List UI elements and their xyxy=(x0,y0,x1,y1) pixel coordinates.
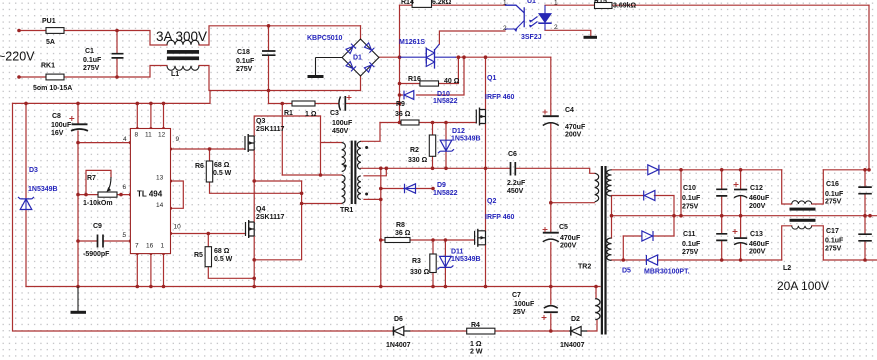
junction 865,215.7 xyxy=(863,214,867,218)
capacitor C3 electrolytic xyxy=(339,97,341,111)
wire AC line bottom from input via RK1 xyxy=(19,66,361,91)
svg-text:200V: 200V xyxy=(749,249,766,256)
svg-text:~220V: ~220V xyxy=(0,50,35,64)
junction 137.3,253.6 xyxy=(136,252,139,255)
bridge rectifier D1 outline xyxy=(342,39,379,76)
svg-text:RK1: RK1 xyxy=(41,63,55,70)
capacitor C6 xyxy=(511,162,516,176)
svg-text:12: 12 xyxy=(158,132,166,139)
resistor R5 xyxy=(205,247,211,267)
transformer TR1 windings xyxy=(342,143,346,172)
wire output minus rail y260 xyxy=(612,259,877,261)
svg-text:C8: C8 xyxy=(52,113,61,120)
svg-text:0.5 W: 0.5 W xyxy=(214,256,233,263)
svg-text:5A: 5A xyxy=(46,39,55,46)
svg-text:36 Ω: 36 Ω xyxy=(395,111,411,118)
junction 550.8,286.5 xyxy=(549,285,553,289)
wire ground rail y286.5 xyxy=(26,286,600,288)
svg-text:C11: C11 xyxy=(683,231,696,238)
svg-text:R8: R8 xyxy=(396,222,405,229)
wire TR1 top-left terminal xyxy=(321,142,342,144)
wire vertical x399.5 startup column xyxy=(399,5,401,122)
svg-text:275V: 275V xyxy=(682,249,699,256)
black component layer xyxy=(46,0,612,334)
svg-text:2.2uF: 2.2uF xyxy=(507,180,526,187)
svg-text:330 Ω: 330 Ω xyxy=(410,269,430,276)
svg-text:450V: 450V xyxy=(332,128,349,135)
junction 721.7,260 xyxy=(720,258,724,262)
svg-text:275V: 275V xyxy=(682,204,699,211)
zener D12 1N5349B xyxy=(438,140,454,153)
junction 163.5,128.5 xyxy=(162,127,165,130)
svg-text:TR2: TR2 xyxy=(578,264,591,271)
junction 869,169.8 xyxy=(867,168,871,172)
junction 163.5,103.4 xyxy=(162,102,166,106)
svg-text:R14: R14 xyxy=(401,0,414,6)
wire L2 bottom risers xyxy=(782,226,824,260)
wire TL494 pin13 pin14 loop xyxy=(171,181,184,208)
svg-text:8: 8 xyxy=(135,132,139,139)
junction 170.5,208.3 xyxy=(169,207,172,210)
svg-text:68 Ω: 68 Ω xyxy=(214,162,230,169)
junction 721.7,169.8 xyxy=(720,168,724,172)
junction 399.5,83.5 xyxy=(398,82,402,86)
wire D5c row y236 xyxy=(623,235,674,237)
wire Q2 drain xyxy=(485,168,487,231)
svg-text:-5900pF: -5900pF xyxy=(83,251,110,258)
svg-text:0.1uF: 0.1uF xyxy=(682,241,701,248)
svg-text:100uF: 100uF xyxy=(51,122,72,129)
resistor R6 xyxy=(206,161,212,182)
junction 19,30.5 xyxy=(17,29,21,33)
resistor R16 xyxy=(420,81,439,86)
junction 366.6,147.5 xyxy=(365,146,368,149)
wire R8 gate row y240 xyxy=(381,239,475,241)
junction 170.5,149 xyxy=(169,147,172,150)
wire R7 wiper loop xyxy=(86,170,111,194)
optocoupler light arrows xyxy=(530,17,538,28)
svg-text:C5: C5 xyxy=(559,224,568,231)
capacitor C10 xyxy=(716,189,727,196)
svg-text:450V: 450V xyxy=(507,188,524,195)
resistor R15 3.69k xyxy=(595,3,613,9)
junction 78,103.4 xyxy=(76,102,80,106)
svg-text:C6: C6 xyxy=(508,151,517,158)
resistor R1 xyxy=(292,101,315,106)
ground at bridge minus xyxy=(316,58,343,76)
svg-text:16: 16 xyxy=(146,243,154,250)
svg-text:R15: R15 xyxy=(594,0,607,5)
junction 380.8,240 xyxy=(379,238,383,242)
wire TR2 primary bottom return xyxy=(551,202,595,204)
svg-text:36 Ω: 36 Ω xyxy=(395,230,411,237)
svg-text:U1: U1 xyxy=(527,0,536,5)
plus polarity marks xyxy=(69,95,738,320)
transistor Q4 2SK1117 xyxy=(245,222,247,236)
wire pin10 row to Q4 gate xyxy=(171,233,246,235)
svg-text:1N5822: 1N5822 xyxy=(433,98,458,105)
wire TL494 pin 6 with R7 xyxy=(78,194,130,196)
wire output plus rail y169.8 xyxy=(612,169,870,171)
junction 464,57.2 xyxy=(462,55,466,59)
junction 446,168.3 xyxy=(444,167,448,171)
svg-text:13: 13 xyxy=(156,175,164,182)
svg-text:3A 300V: 3A 300V xyxy=(156,29,207,44)
svg-text:1-10kOm: 1-10kOm xyxy=(83,200,113,207)
wire C4 C5 column x550.8 xyxy=(550,57,552,286)
wire LED anode row to R15 xyxy=(545,4,869,6)
junction 320.5,175 xyxy=(319,173,323,177)
junction 301.6,203.5 xyxy=(300,202,304,206)
wire C7 column xyxy=(550,287,552,332)
svg-text:2SK1117: 2SK1117 xyxy=(256,126,285,133)
svg-text:IRFP 460: IRFP 460 xyxy=(485,94,515,101)
wire secondary lower tap to D5b xyxy=(612,196,675,237)
capacitor C7 electrolytic xyxy=(544,306,558,309)
svg-text:D9: D9 xyxy=(437,182,446,189)
choke L1 xyxy=(167,40,199,45)
junction 681,215.7 xyxy=(679,214,683,218)
junction 130.4,194.6 xyxy=(129,193,132,196)
junction 623.3,260 xyxy=(622,258,626,262)
svg-text:100uF: 100uF xyxy=(514,301,535,308)
svg-text:D2: D2 xyxy=(571,316,580,323)
junction 78,241 xyxy=(76,239,80,243)
wire R3 column xyxy=(432,240,434,287)
svg-text:6.2kΩ: 6.2kΩ xyxy=(432,0,452,6)
junction 19,77 xyxy=(17,75,21,79)
junction 380.8,168.3 xyxy=(379,167,383,171)
svg-text:100uF: 100uF xyxy=(332,120,353,127)
wire C11 C13 columns lower xyxy=(722,216,741,260)
thyristor M1261S xyxy=(400,56,457,58)
svg-text:R4: R4 xyxy=(471,322,480,329)
wire LED cathode row to ground xyxy=(545,30,591,36)
svg-text:14: 14 xyxy=(156,202,164,209)
svg-text:200V: 200V xyxy=(749,203,766,210)
svg-text:1N5349B: 1N5349B xyxy=(451,256,481,263)
wire TL494 pin 7 16 1 bottom pins xyxy=(137,254,163,287)
junction 254.2,181 xyxy=(252,179,256,183)
svg-text:R2: R2 xyxy=(410,147,419,154)
svg-text:40 Ω: 40 Ω xyxy=(444,78,460,85)
wire TR2 secondary stubs xyxy=(611,196,613,238)
junction 78,142.6 xyxy=(76,141,80,145)
junction 117,77 xyxy=(115,75,119,79)
junction 254.2,278.3 xyxy=(252,277,256,281)
capacitor C16 xyxy=(858,187,872,194)
capacitor C11 xyxy=(716,234,727,241)
svg-text:TR1: TR1 xyxy=(340,207,353,214)
wire C17 column xyxy=(864,216,866,260)
wire TR1 mid-left terminal row y175 xyxy=(282,174,341,176)
junction 740.6,169.8 xyxy=(739,168,743,172)
svg-text:C9: C9 xyxy=(93,223,102,230)
svg-text:2 W: 2 W xyxy=(470,349,483,356)
svg-text:1N5349B: 1N5349B xyxy=(28,186,58,193)
junction 150.9,286.5 xyxy=(149,285,153,289)
svg-text:1: 1 xyxy=(554,0,558,7)
svg-text:1N5349B: 1N5349B xyxy=(451,136,481,143)
junction 740.6,215.7 xyxy=(739,214,743,218)
wire TR1 right-top winding riser to gate row xyxy=(361,123,380,142)
svg-text:4: 4 xyxy=(123,136,127,143)
svg-text:0.1uF: 0.1uF xyxy=(825,238,844,245)
svg-text:R9: R9 xyxy=(396,101,405,108)
svg-text:C4: C4 xyxy=(565,107,574,114)
svg-text:C12: C12 xyxy=(750,185,763,192)
svg-text:Q3: Q3 xyxy=(256,118,265,125)
junction 445.4,240 xyxy=(444,238,448,242)
transistor Q3 2SK1117 xyxy=(244,136,246,150)
wire C1 column xyxy=(116,31,118,78)
svg-text:C18: C18 xyxy=(237,49,250,56)
wire R5 column xyxy=(208,234,254,279)
svg-text:L1: L1 xyxy=(171,71,179,78)
transformer TR2 windings xyxy=(595,173,599,201)
junction 86,194.6 xyxy=(84,193,88,197)
capacitor C4 electrolytic xyxy=(543,115,559,117)
svg-text:9: 9 xyxy=(176,136,180,143)
svg-text:M1261S: M1261S xyxy=(399,39,425,46)
wire feedback column x869 xyxy=(868,5,870,170)
svg-text:20A 100V: 20A 100V xyxy=(777,279,829,293)
resistor R4 xyxy=(467,328,495,334)
svg-text:C16: C16 xyxy=(826,181,839,188)
junction 301.6,193.3 xyxy=(300,192,304,196)
wire control supply rail y101.7 xyxy=(13,91,211,104)
svg-text:D6: D6 xyxy=(394,316,403,323)
svg-text:1 Ω: 1 Ω xyxy=(470,341,482,348)
resistor R9 xyxy=(401,120,419,125)
junction 485.5,57.2 xyxy=(484,55,488,59)
wire x320.5 column xyxy=(320,116,322,175)
svg-text:C10: C10 xyxy=(683,185,696,192)
junction 865,260 xyxy=(863,258,867,262)
junction 740.6,260 xyxy=(739,258,743,262)
svg-text:275V: 275V xyxy=(825,199,842,206)
svg-text:275V: 275V xyxy=(825,246,842,253)
wire opto supply row y5.2 xyxy=(400,4,506,6)
wire D10 branch xyxy=(400,57,465,95)
wire C10 C12 columns upper xyxy=(722,170,741,216)
junction 399.5,57.2 xyxy=(398,55,402,59)
svg-text:2: 2 xyxy=(554,24,558,31)
svg-text:MBR30100PT.: MBR30100PT. xyxy=(644,269,690,276)
junction 268.5,90.5 xyxy=(267,89,271,93)
bridge diode bottom-right xyxy=(364,62,374,72)
junction 150.9,103.4 xyxy=(149,102,153,106)
junction 445.4,286.5 xyxy=(444,285,448,289)
resistor R3 xyxy=(430,254,436,273)
transistor Q1 IRFP460 xyxy=(475,110,477,124)
wire gate drive row y122.5 xyxy=(380,122,476,124)
ground at TL494 xyxy=(77,287,79,312)
junction 433,188.5 xyxy=(431,187,435,191)
wire x681 column xyxy=(680,170,682,216)
junction 121,194.6 xyxy=(119,193,123,197)
junction 282.3,103.5 xyxy=(281,102,285,106)
capacitor C18 xyxy=(262,51,276,55)
svg-text:R3: R3 xyxy=(412,258,421,265)
svg-text:D1: D1 xyxy=(353,55,362,62)
wire D12 column xyxy=(445,123,447,169)
wire TR2 aux winding to ground rail xyxy=(595,287,597,299)
svg-text:L2: L2 xyxy=(783,265,791,272)
svg-text:0.1uF: 0.1uF xyxy=(825,191,844,198)
svg-text:1 Ω: 1 Ω xyxy=(305,111,317,118)
wire R2 column xyxy=(432,123,434,169)
junction 170.5,233.5 xyxy=(169,232,172,235)
svg-text:R16: R16 xyxy=(408,76,421,83)
svg-text:0.1uF: 0.1uF xyxy=(236,58,255,65)
junction 399.5,122.5 xyxy=(398,121,402,125)
junction 163.5,253.6 xyxy=(162,252,165,255)
junction 150.9,128.5 xyxy=(149,127,152,130)
wire output mid rail y215.7 xyxy=(612,215,877,217)
junction 721.7,215.7 xyxy=(720,214,724,218)
svg-text:6: 6 xyxy=(123,184,127,191)
svg-text:68 Ω: 68 Ω xyxy=(214,248,230,255)
svg-text:2: 2 xyxy=(503,25,507,32)
junction 170.5,181 xyxy=(169,179,172,182)
wire AC line top from input to fuse PU1 and on xyxy=(19,26,361,45)
wire mid row y168.3 half-bridge midpoint to C6 and TR2 xyxy=(361,168,595,173)
junction 380.8,199.4 xyxy=(379,198,383,202)
capacitor C1 xyxy=(112,54,124,58)
zener D3 1N5349B xyxy=(18,197,34,210)
svg-text:470uF: 470uF xyxy=(560,235,581,242)
capacitor C9 xyxy=(98,235,104,248)
blue symbol layer xyxy=(18,5,659,269)
svg-text:D12: D12 xyxy=(452,128,465,135)
rectifier diode D5b xyxy=(644,191,655,201)
junction 433,286.5 xyxy=(431,285,435,289)
fuse RK1 xyxy=(46,74,64,80)
junction 208.3,233.5 xyxy=(207,232,211,236)
wire x78 column C8 R7 C9 ground xyxy=(77,103,79,286)
junction 458.4,57.2 xyxy=(457,55,461,59)
junction 865,169.8 xyxy=(863,168,867,172)
svg-text:C3: C3 xyxy=(330,110,339,117)
resistor R8 xyxy=(385,238,410,243)
wire x301.6 column xyxy=(254,181,301,260)
svg-text:460uF: 460uF xyxy=(749,241,770,248)
wire C18 column and R1 feed xyxy=(268,26,270,104)
wire TR1 right-bottom winding bottom tap xyxy=(364,198,381,200)
junction 432.5,168.3 xyxy=(431,167,435,171)
svg-text:11: 11 xyxy=(145,132,152,139)
svg-text:C13: C13 xyxy=(750,231,763,238)
junction 681,169.8 xyxy=(679,168,683,172)
capacitor C5 electrolytic xyxy=(543,232,559,234)
wire TL494 pin 8 11 12 top pins xyxy=(137,103,163,128)
svg-text:3SF2J: 3SF2J xyxy=(521,34,542,41)
svg-text:330 Ω: 330 Ω xyxy=(408,157,428,164)
junction 137.3,103.4 xyxy=(136,102,140,106)
svg-text:7: 7 xyxy=(135,243,139,250)
junction 137.3,286.5 xyxy=(136,285,140,289)
svg-text:0.5 W: 0.5 W xyxy=(213,170,232,177)
diode D6 1N4007 xyxy=(392,330,410,332)
junction 130.4,142.6 xyxy=(129,141,132,144)
bridge diode top-right xyxy=(364,43,374,53)
rectifier diode D5c xyxy=(642,231,653,241)
wire Q4 source to ground rail xyxy=(253,237,255,287)
wire bridge bottom corner drop xyxy=(360,76,362,91)
junction 432.5,122.5 xyxy=(431,121,435,125)
junction 485.5,168.3 xyxy=(484,167,488,171)
junction 78,286.5 xyxy=(76,285,80,289)
svg-text:200V: 200V xyxy=(560,243,577,250)
resistor R2 xyxy=(429,135,435,156)
rectifier diode D5a xyxy=(648,165,659,175)
svg-text:3.69kΩ: 3.69kΩ xyxy=(613,3,637,10)
junction 137.3,128.5 xyxy=(136,127,139,130)
capacitor C13 electrolytic xyxy=(734,237,747,239)
svg-text:5om 10-15A: 5om 10-15A xyxy=(33,85,72,92)
junction 78,194.6 xyxy=(76,193,80,197)
IC TL494 box xyxy=(130,129,170,254)
capacitor C17 xyxy=(858,234,872,241)
svg-text:Q1: Q1 xyxy=(487,75,496,82)
optocoupler U1 phototransistor xyxy=(505,5,524,27)
wire x380.8 column to ground rail xyxy=(380,168,382,286)
diode D9 1N5822 xyxy=(405,184,416,193)
zener D11 1N5349B xyxy=(437,256,453,269)
svg-text:Q4: Q4 xyxy=(256,206,265,213)
junction 268.5,25.8 xyxy=(267,24,271,28)
junction 399.5,103.5 xyxy=(398,102,402,106)
junction 254.2,259.8 xyxy=(252,258,256,262)
wire +310V rail y57 xyxy=(379,56,551,58)
wire R1 C3 row xyxy=(269,103,400,105)
junction 380.8,286.5 xyxy=(379,285,383,289)
svg-text:0.1uF: 0.1uF xyxy=(83,57,102,64)
svg-text:R6: R6 xyxy=(195,163,204,170)
junction 130.4,241 xyxy=(129,239,132,242)
junction 163.5,286.5 xyxy=(162,285,166,289)
capacitor C12 electrolytic xyxy=(734,189,747,191)
svg-text:C1: C1 xyxy=(85,48,94,55)
choke L2 xyxy=(792,201,812,204)
resistor R14 6.2k top-left cut xyxy=(412,0,431,7)
bridge diode top-left xyxy=(346,44,356,54)
svg-text:1N4007: 1N4007 xyxy=(560,342,585,349)
junction 345.2,166 xyxy=(344,165,347,168)
svg-text:R1: R1 xyxy=(284,110,293,117)
svg-text:D11: D11 xyxy=(451,249,464,256)
svg-text:470uF: 470uF xyxy=(565,124,586,131)
wire left outer loop x12.5 to bottom rail xyxy=(13,103,393,331)
wire x282.3 from R1 row xyxy=(281,104,283,176)
optocoupler U1 LED xyxy=(544,5,546,30)
diode D2 1N4007 xyxy=(569,330,587,332)
junction 550.8,202.7 xyxy=(549,201,553,205)
junction 117,30.5 xyxy=(115,29,119,33)
junction 209.5,149 xyxy=(208,147,212,151)
svg-text:1N5822: 1N5822 xyxy=(433,190,458,197)
svg-text:D5: D5 xyxy=(622,268,631,275)
wire bottom rail segments with D6 R4 D2 xyxy=(410,320,597,331)
wire TL494 pin 4 xyxy=(78,142,130,144)
wire D9 row xyxy=(381,188,433,190)
svg-text:16V: 16V xyxy=(51,130,64,137)
junction 550.8,331 xyxy=(549,329,553,333)
junction 366.6,194 xyxy=(365,193,368,196)
ground at opto xyxy=(584,36,598,39)
wire Q1 drain xyxy=(485,57,487,109)
